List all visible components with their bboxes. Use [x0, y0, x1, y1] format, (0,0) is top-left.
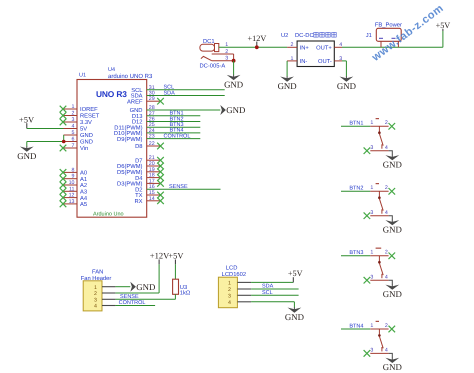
svg-text:GND: GND [383, 362, 402, 372]
svg-text:13: 13 [69, 199, 75, 205]
svg-text:A1: A1 [80, 177, 87, 183]
svg-text:BTN1: BTN1 [349, 121, 363, 127]
svg-text:OUT+: OUT+ [316, 44, 332, 51]
svg-text:GND: GND [383, 160, 402, 170]
svg-text:2: 2 [72, 111, 75, 117]
svg-text:A2: A2 [80, 182, 87, 189]
svg-text:1: 1 [370, 120, 373, 126]
svg-text:3: 3 [370, 274, 373, 280]
svg-text:FAN: FAN [92, 269, 103, 275]
svg-text:1: 1 [228, 281, 231, 287]
svg-text:3: 3 [228, 294, 231, 300]
svg-text:9: 9 [72, 174, 75, 180]
svg-text:2: 2 [385, 120, 388, 126]
svg-text:3: 3 [370, 348, 373, 354]
svg-text:U4: U4 [108, 67, 115, 73]
svg-text:SCL: SCL [262, 290, 273, 296]
svg-text:OUT-: OUT- [318, 58, 332, 65]
svg-text:+5V: +5V [288, 269, 303, 278]
svg-text:GND: GND [278, 81, 297, 91]
svg-text:2: 2 [228, 287, 231, 293]
svg-text:IN+: IN+ [300, 45, 310, 51]
svg-text:8: 8 [72, 167, 75, 173]
svg-text:AREF: AREF [127, 99, 143, 105]
svg-text:4: 4 [228, 300, 231, 306]
svg-text:FB_Power: FB_Power [375, 23, 402, 29]
svg-text:BTN2: BTN2 [349, 186, 363, 192]
svg-text:J1: J1 [366, 33, 372, 39]
svg-text:1: 1 [94, 285, 97, 291]
svg-text:4: 4 [94, 304, 97, 310]
svg-text:2: 2 [385, 323, 388, 329]
svg-text:+5V: +5V [19, 114, 35, 124]
svg-text:GND: GND [383, 289, 402, 299]
svg-text:2: 2 [385, 250, 388, 256]
svg-text:D9(PWM): D9(PWM) [117, 136, 143, 143]
svg-text:CONTROL: CONTROL [164, 133, 191, 139]
svg-text:Vin: Vin [80, 145, 88, 152]
svg-text:U2: U2 [281, 32, 288, 39]
svg-text:+12V: +12V [248, 34, 267, 43]
svg-text:GND: GND [80, 139, 93, 146]
svg-text:DC1: DC1 [203, 38, 215, 45]
svg-text:1: 1 [370, 185, 373, 191]
svg-text:3: 3 [72, 117, 75, 123]
svg-text:LCD: LCD [226, 264, 238, 271]
svg-text:3: 3 [94, 297, 97, 303]
svg-text:4: 4 [385, 274, 388, 280]
svg-text:1kΩ: 1kΩ [180, 290, 191, 297]
svg-text:GND: GND [383, 225, 402, 235]
svg-text:3: 3 [370, 210, 373, 216]
svg-text:arduino UNO R3: arduino UNO R3 [108, 73, 153, 80]
svg-text:DC-DC: DC-DC [295, 32, 314, 39]
svg-text:SDA: SDA [262, 284, 274, 290]
svg-text:4: 4 [385, 210, 388, 216]
svg-text:3: 3 [339, 56, 342, 62]
svg-text:A5: A5 [80, 202, 87, 208]
svg-text:2: 2 [385, 185, 388, 191]
svg-text:3: 3 [370, 145, 373, 151]
svg-text:Arduino Uno: Arduino Uno [93, 212, 124, 218]
svg-text:RESET: RESET [80, 113, 100, 120]
svg-text:1: 1 [291, 56, 294, 62]
svg-text:CONTROL: CONTROL [119, 300, 146, 306]
svg-text:GND: GND [226, 105, 245, 115]
svg-text:UNO R3: UNO R3 [96, 89, 127, 99]
svg-text:7: 7 [72, 143, 75, 149]
svg-text:SENSE: SENSE [169, 184, 188, 190]
svg-text:SDA: SDA [164, 90, 176, 96]
svg-text:GND: GND [337, 81, 356, 91]
svg-text:6: 6 [72, 137, 75, 143]
svg-text:U1: U1 [79, 73, 86, 79]
svg-text:3.3V: 3.3V [80, 119, 92, 126]
svg-text:4: 4 [72, 124, 75, 130]
svg-text:4: 4 [339, 42, 342, 48]
svg-text:4: 4 [385, 145, 388, 151]
svg-text:D8: D8 [135, 143, 142, 150]
svg-text:A4: A4 [80, 196, 88, 202]
svg-text:10: 10 [69, 180, 75, 186]
svg-text:+12V: +12V [150, 251, 170, 261]
svg-text:BTN3: BTN3 [349, 250, 363, 256]
svg-text:IOREF: IOREF [80, 106, 98, 113]
svg-text:GND: GND [224, 79, 243, 89]
svg-text:5: 5 [72, 130, 75, 136]
svg-text:A3: A3 [80, 189, 87, 196]
svg-text:GND: GND [136, 282, 155, 292]
svg-text:2: 2 [94, 291, 97, 297]
svg-text:4: 4 [385, 348, 388, 354]
svg-text:IN-: IN- [300, 59, 308, 65]
svg-text:1: 1 [370, 323, 373, 329]
svg-text:1: 1 [72, 104, 75, 110]
svg-text:GND: GND [80, 132, 93, 139]
svg-text:12: 12 [69, 193, 75, 199]
svg-text:SENSE: SENSE [120, 294, 139, 300]
svg-text:11: 11 [69, 186, 75, 192]
svg-text:1: 1 [370, 250, 373, 256]
svg-text:+5V: +5V [168, 251, 184, 261]
svg-text:GND: GND [17, 151, 36, 161]
svg-text:RX: RX [134, 199, 142, 205]
svg-text:5V: 5V [80, 127, 87, 133]
svg-text:GND: GND [285, 312, 304, 322]
svg-text:2: 2 [291, 42, 294, 48]
svg-text:DC-005-A: DC-005-A [200, 63, 226, 70]
svg-text:A0: A0 [80, 170, 87, 177]
svg-text:BTN4: BTN4 [349, 323, 363, 329]
